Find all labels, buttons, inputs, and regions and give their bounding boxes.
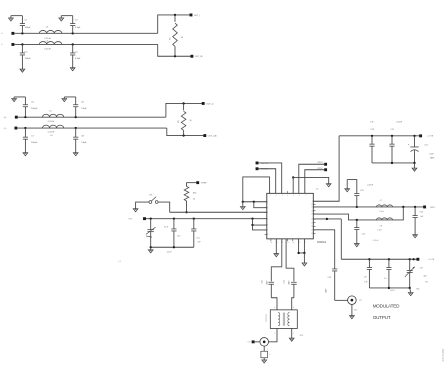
ground U1 left (240, 202, 245, 210)
inductor L7 (376, 205, 392, 207)
node junction C22 (413, 135, 415, 137)
terminal OUT_Q+ (202, 102, 214, 105)
terminal LO (248, 340, 260, 343)
svg-text:100pF: 100pF (288, 280, 290, 285)
svg-text:GND: GND (354, 310, 358, 312)
svg-text:C8: C8 (81, 136, 85, 138)
svg-text:C1: C1 (25, 20, 29, 22)
svg-text:0.01uF: 0.01uF (396, 121, 403, 123)
wire pin6 jog (253, 225, 267, 230)
op-amp U1 modulator IC body (267, 193, 314, 239)
node junction gnd rail2 (388, 287, 390, 289)
svg-text:100pF: 100pF (31, 108, 38, 110)
wire VOUT rail (341, 258, 416, 260)
terminal OUT_I+ (190, 14, 201, 17)
wire Q+ to top rail (166, 103, 202, 117)
svg-text:C31: C31 (284, 280, 286, 283)
wire pin20 ground (274, 239, 279, 257)
node junction C29b (412, 258, 414, 260)
capacitor C10 (164, 219, 180, 248)
svg-text:RFO: RFO (430, 207, 435, 209)
svg-text:0.22uH: 0.22uH (44, 49, 51, 51)
capacitor C3 with ground (20, 44, 32, 72)
wire jumper riser (158, 202, 169, 212)
svg-text:7: 7 (267, 230, 268, 232)
capacitor C29 trimmer (405, 259, 415, 288)
svg-text:100pF: 100pF (25, 58, 32, 60)
inductor L3 (39, 30, 62, 33)
resistor R16 (184, 183, 189, 213)
svg-text:0.1uF: 0.1uF (164, 227, 168, 229)
transformer T1 label (266, 313, 268, 323)
node I input label (2, 33, 5, 46)
svg-text:Q+: Q+ (4, 117, 8, 119)
svg-text:11: 11 (311, 207, 313, 209)
node junction top pin5 (292, 176, 294, 178)
wire CT1 to bottom (150, 232, 152, 248)
ground cap C24 (413, 235, 418, 238)
terminal right top 2 (317, 168, 327, 171)
svg-text:100pF: 100pF (266, 280, 268, 285)
node junction C21 (391, 135, 393, 137)
wire railB link pin5 (251, 218, 266, 226)
terminal LO input 2 (256, 167, 269, 170)
svg-text:23: 23 (287, 242, 289, 244)
inductor L8 (376, 218, 392, 220)
svg-text:3: 3 (274, 333, 275, 335)
capacitor C30 (262, 280, 275, 297)
node junction rail2 capB (356, 219, 358, 221)
node junction rail1 C24 (414, 206, 416, 208)
svg-text:L2: L2 (316, 189, 319, 191)
svg-text:12: 12 (311, 210, 313, 212)
svg-text:5: 5 (293, 195, 294, 197)
svg-text:VPS1: VPS1 (317, 162, 323, 164)
resistor R1 (173, 15, 178, 56)
inductor L5 value (48, 121, 55, 123)
inductor L5 label (49, 111, 52, 113)
svg-text:C30: C30 (262, 280, 264, 283)
terminal rail2 VPOS (416, 258, 434, 261)
svg-text:100pF: 100pF (25, 27, 32, 29)
node junction C10 (173, 218, 175, 220)
svg-text:+5 VS: +5 VS (428, 259, 434, 261)
svg-text:1uF: 1uF (370, 121, 374, 123)
svg-text:C29: C29 (420, 268, 423, 270)
inductor L6 (43, 125, 64, 128)
svg-text:L7: L7 (380, 200, 382, 202)
svg-text:Q−: Q− (4, 128, 8, 130)
ground top right of U1 (326, 184, 331, 187)
svg-text:GND 2: GND 2 (390, 290, 396, 292)
wire pins 25 26 join (299, 239, 305, 253)
svg-text:GND: GND (300, 335, 305, 337)
node junction gnd rail (391, 162, 393, 164)
svg-text:PAD: PAD (416, 287, 420, 290)
svg-text:3.3nH: 3.3nH (379, 211, 384, 213)
node junction Q+ left (24, 116, 26, 118)
svg-text:VTT: VTT (129, 219, 134, 221)
resistor R16 labels (193, 193, 196, 201)
capacitor C20 (369, 136, 374, 163)
node junction bottom rail 1 (150, 246, 152, 248)
capacitor C24 (413, 207, 425, 235)
svg-text:1nF: 1nF (198, 242, 202, 244)
svg-text:L8: L8 (380, 225, 382, 227)
svg-text:16: 16 (311, 226, 313, 228)
svg-text:10uF: 10uF (429, 154, 434, 156)
svg-text:C21: C21 (391, 129, 394, 131)
ground SMA output (350, 304, 359, 318)
ground cap B (354, 244, 359, 247)
inductor L6 value (48, 132, 55, 137)
capacitor C26 series (325, 269, 337, 300)
inductor L4 (39, 42, 62, 45)
terminal right top 1 (317, 162, 327, 166)
svg-text:JP1: JP1 (149, 195, 152, 197)
svg-text:17: 17 (311, 230, 313, 232)
wire R6 takeoff (313, 218, 341, 220)
resistor R2 labels (178, 120, 191, 123)
resistor R17 body (261, 346, 270, 358)
capacitor C31 (284, 280, 297, 297)
node junction pin6 link (251, 224, 253, 226)
wire bottom gnd rail2 (369, 287, 409, 289)
node VADJ label (129, 219, 134, 221)
svg-text:10: 10 (311, 204, 313, 206)
svg-text:C24: C24 (420, 212, 423, 214)
svg-text:C6: C6 (81, 101, 85, 103)
capacitor C2 with ground (59, 16, 81, 34)
wire t3 to pin (299, 164, 324, 193)
svg-text:+: + (408, 144, 410, 147)
wire Q- to bottom rail (167, 128, 204, 136)
capacitor C4 with ground (70, 44, 81, 70)
label C21 value (391, 121, 404, 131)
svg-text:+ C9: + C9 (117, 261, 121, 263)
svg-text:3.3pF: 3.3pF (81, 108, 87, 110)
wire rail2 (313, 207, 403, 220)
svg-text:C10: C10 (177, 236, 180, 238)
node junction I- mid (72, 43, 74, 45)
wire rail ENOP (170, 211, 267, 213)
svg-text:4: 4 (267, 212, 268, 214)
svg-text:50: 50 (181, 37, 183, 39)
node junction C20 (371, 135, 373, 137)
wire output from pin (313, 230, 334, 269)
svg-text:5: 5 (267, 218, 268, 220)
node junction gnd rail b (413, 162, 415, 164)
wire cap gnd rail (372, 162, 415, 164)
wire I+ row (14, 32, 157, 34)
node junction pin26 (303, 252, 305, 254)
ground VCC caps (412, 163, 417, 171)
label gnd rail2 (390, 290, 396, 292)
node junction Q- mid (75, 127, 77, 129)
svg-text:R1: R1 (170, 37, 172, 39)
capacitor C1 with ground (9, 16, 32, 34)
wire C30 to T1 (271, 298, 277, 310)
svg-text:C22: C22 (424, 144, 427, 146)
svg-text:C4: C4 (75, 51, 79, 53)
svg-text:+5 VS: +5 VS (427, 136, 433, 138)
wire cap bottom rail (151, 246, 194, 248)
U1 PADDLE label (317, 241, 326, 244)
wire rail VADJ (146, 218, 267, 220)
ground LO connector (262, 358, 267, 363)
wire rail1 RFOUT (313, 206, 423, 208)
terminal J4 Q- input (14, 127, 17, 130)
svg-text:3: 3 (282, 195, 283, 197)
wire VCC rail (339, 135, 419, 137)
svg-text:I−: I− (2, 44, 5, 46)
label 100pF gray (167, 252, 173, 254)
inductor L5 (43, 114, 64, 117)
node junction C11 (193, 218, 195, 220)
wire t4 to pin (305, 170, 324, 194)
svg-text:4: 4 (274, 307, 275, 309)
wire loop to top pin1 (243, 177, 270, 202)
svg-text:0.01uF: 0.01uF (373, 240, 380, 242)
svg-text:1nF: 1nF (420, 216, 424, 218)
terminal VPOS (419, 134, 434, 137)
svg-text:C26: C26 (328, 277, 331, 279)
node junction pin25 (297, 252, 299, 254)
svg-text:5pF: 5pF (424, 275, 428, 277)
svg-text:C20: C20 (371, 129, 374, 131)
node junction R1 bottom (174, 55, 176, 57)
wire I- row (14, 43, 157, 45)
svg-text:100pF: 100pF (31, 142, 38, 144)
wire T1 secondary ground (289, 328, 304, 341)
wire Q+ row (18, 116, 166, 118)
svg-text:15: 15 (311, 222, 313, 224)
wire pin3 jog (254, 202, 267, 208)
terminal VREF (196, 181, 207, 184)
svg-text:1: 1 (293, 333, 294, 335)
node junction R2 top (182, 102, 184, 104)
svg-text:2: 2 (269, 354, 270, 356)
wire pin22 to C31 (286, 239, 294, 282)
svg-text:OUTPUT: OUTPUT (373, 315, 391, 320)
svg-text:56: 56 (193, 199, 195, 201)
node junction Q- left (24, 127, 26, 129)
ground bottom right (408, 287, 420, 295)
wire Q- row (17, 127, 167, 129)
U1 left pin stubs (265, 201, 269, 236)
terminal J2 I- input (11, 43, 14, 46)
label L8 (377, 225, 382, 231)
capacitor C28 (384, 259, 391, 288)
svg-text:C3: C3 (25, 51, 29, 53)
svg-text:3.3pF: 3.3pF (81, 142, 87, 144)
ground at JP1 (133, 209, 138, 212)
capacitor C27 (364, 259, 372, 288)
svg-text:3.3nH: 3.3nH (377, 229, 382, 231)
node junction C28 (388, 258, 390, 260)
capacitor C24b (354, 220, 379, 244)
node junction C29 (409, 258, 411, 260)
svg-text:OUT_I: OUT_I (194, 15, 201, 17)
svg-text:C25: C25 (362, 234, 365, 236)
svg-text:L3: L3 (46, 27, 49, 29)
resistor R2 (181, 103, 186, 135)
svg-text:C11: C11 (196, 238, 199, 240)
svg-text:OUT_QB: OUT_QB (208, 136, 217, 138)
svg-text:I+: I+ (2, 33, 5, 35)
node junction gnd rail2 b (409, 287, 411, 289)
wire to SMA output (335, 299, 348, 301)
svg-text:P2: P2 (359, 300, 361, 302)
wire VCC vertical to U1 (313, 136, 339, 201)
capacitor C8 with ground (73, 128, 87, 156)
figure number (441, 348, 445, 361)
node junction I+ left (21, 32, 23, 34)
node junction R16 bottom (185, 211, 187, 213)
svg-text:R2: R2 (178, 120, 180, 122)
terminal VADJ (143, 217, 146, 220)
node junction CT1 (150, 218, 152, 220)
svg-text:18: 18 (311, 233, 313, 235)
label L7 (379, 200, 384, 213)
svg-text:100pF: 100pF (325, 288, 327, 293)
jumper JP1 label (149, 195, 152, 197)
label C22 (424, 144, 435, 159)
node junction pin2 b (253, 201, 255, 203)
svg-text:0.1: 0.1 (384, 278, 387, 280)
node junction pin2 a (242, 201, 244, 203)
svg-text:C7: C7 (31, 136, 35, 138)
jumper JP1 (149, 197, 158, 204)
svg-text:C2: C2 (75, 20, 79, 22)
node junction I- left (21, 43, 23, 45)
svg-text:C27: C27 (364, 277, 367, 279)
svg-text:C23: C23 (360, 190, 363, 192)
label C20 value (370, 121, 374, 131)
ground bias network (148, 247, 153, 253)
node junction C27 (368, 258, 370, 260)
svg-text:C5: C5 (31, 101, 35, 103)
svg-text:3: 3 (267, 207, 268, 209)
svg-text:MODULATED: MODULATED (373, 304, 400, 309)
transformer pin numbers (274, 307, 294, 335)
svg-text:13: 13 (311, 214, 313, 216)
wire VREF to R16 (187, 182, 197, 184)
wire LO2 to pin (259, 169, 276, 194)
label MODULATED OUTPUT (373, 304, 400, 320)
U1 bottom pin stubs (270, 239, 305, 244)
label L2 (316, 189, 319, 191)
wire T1 to LO connector (269, 328, 277, 341)
node junction rail1 L8 (402, 206, 404, 208)
terminal LO input 1 (256, 162, 269, 165)
connector SMA LO input (260, 338, 269, 347)
svg-text:0.22uH: 0.22uH (48, 121, 55, 123)
svg-text:24: 24 (292, 242, 294, 244)
svg-text:V REF: V REF (201, 183, 208, 185)
svg-text:1uF: 1uF (364, 282, 368, 284)
capacitor C6 with ground (62, 97, 87, 117)
resistor R1 labels (170, 37, 183, 40)
wire LO1 to pin (259, 163, 282, 193)
svg-text:*: * (154, 229, 155, 231)
wire U1 pin2 ground link (243, 201, 267, 203)
terminal RF rail (423, 206, 435, 209)
svg-text:0.22uH: 0.22uH (48, 132, 55, 134)
svg-text:OUT_Q: OUT_Q (206, 103, 214, 105)
wire C31 to T1 (292, 298, 294, 310)
capacitor C11 (191, 219, 201, 248)
capacitor C7 with ground (23, 128, 38, 156)
wire top gnd run (293, 177, 329, 193)
terminal OUT_Q- (203, 134, 217, 137)
capacitor C23 (347, 180, 374, 207)
node junction rail1 capA (356, 206, 358, 208)
svg-text:SKY: SKY (425, 281, 429, 283)
svg-text:8: 8 (267, 234, 268, 236)
svg-text:2: 2 (276, 195, 277, 197)
wire jumper to ground (136, 202, 149, 209)
U1 top pin stubs (270, 191, 306, 197)
inductor L3 value label (44, 27, 51, 40)
capacitor C5 with ground (12, 97, 38, 117)
ground cap A (345, 180, 350, 192)
svg-text:3.3pF: 3.3pF (75, 27, 81, 29)
node junction I+ mid (72, 32, 74, 34)
capacitor CT1 trimmer (146, 219, 156, 238)
wire I- to bottom rail (158, 44, 191, 56)
ground pins 25 26 (302, 253, 307, 266)
label C29 (420, 268, 430, 284)
svg-text:TANT: TANT (430, 156, 435, 159)
terminal J1 I+ input (11, 32, 14, 35)
svg-text:6: 6 (267, 225, 268, 227)
svg-text:04773-062: 04773-062 (441, 348, 445, 361)
terminal OUT_I- (190, 55, 203, 58)
svg-text:6: 6 (293, 307, 294, 309)
node junction Q+ mid (75, 116, 77, 118)
wire pin21 to C30 (271, 239, 282, 282)
terminal J3 Q+ input (15, 116, 18, 119)
svg-text:LO: LO (248, 342, 251, 344)
svg-text:20: 20 (270, 242, 272, 244)
svg-text:T1 TC1-1T: T1 TC1-1T (266, 313, 268, 323)
wire vertical to VOUT rail (340, 219, 342, 259)
U1 right pin stubs (311, 201, 315, 235)
node junction R1 top (174, 14, 176, 16)
capacitor C21 (389, 136, 394, 163)
svg-text:14: 14 (311, 219, 313, 221)
svg-text:50: 50 (190, 120, 192, 122)
node junction R2 bottom (182, 134, 184, 136)
node Q input label (4, 117, 8, 130)
connector SMA output (348, 296, 362, 305)
svg-text:L5: L5 (49, 111, 52, 113)
svg-text:PADDLE: PADDLE (317, 241, 326, 244)
svg-text:3.3pF: 3.3pF (75, 58, 81, 60)
svg-text:100pF: 100pF (167, 252, 173, 254)
capacitor C22 electrolytic (408, 136, 419, 163)
svg-text:0.01uF: 0.01uF (367, 185, 374, 187)
svg-text:OUT_IB: OUT_IB (195, 56, 203, 58)
svg-text:2: 2 (267, 201, 268, 203)
wire I+ to top rail (158, 15, 191, 33)
inductor L4 value label (44, 40, 51, 50)
transformer T1 windings (278, 313, 289, 326)
svg-text:1: 1 (267, 349, 268, 351)
node junction bottom rail 2 (173, 246, 175, 248)
svg-text:L6: L6 (50, 135, 53, 137)
